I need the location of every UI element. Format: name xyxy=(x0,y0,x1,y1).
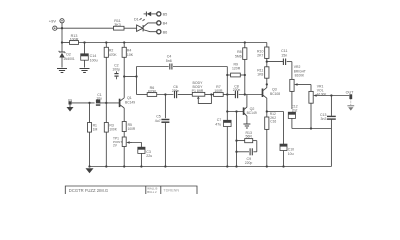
svg-text:100R: 100R xyxy=(128,127,136,131)
svg-text:BULL 2: BULL 2 xyxy=(147,190,157,194)
svg-text:B100K: B100K xyxy=(295,74,305,78)
svg-text:BC108: BC108 xyxy=(270,92,280,96)
svg-text:10K: 10K xyxy=(127,53,134,57)
svg-text:47u: 47u xyxy=(215,123,221,127)
svg-text:10u: 10u xyxy=(96,97,102,101)
svg-text:4u7: 4u7 xyxy=(155,119,161,123)
svg-text:1N4001: 1N4001 xyxy=(63,57,75,61)
svg-text:TDRENN: TDRENN xyxy=(163,188,179,192)
svg-text:BC149: BC149 xyxy=(247,111,257,115)
svg-text:A100K: A100K xyxy=(317,93,327,97)
svg-text:470K: 470K xyxy=(109,53,118,57)
svg-text:C13: C13 xyxy=(320,113,326,117)
svg-text:C3: C3 xyxy=(146,150,151,154)
svg-text:3n3: 3n3 xyxy=(321,117,327,121)
svg-text:D1: D1 xyxy=(134,18,139,22)
svg-text:DCGTR FUZZ 2IM.G: DCGTR FUZZ 2IM.G xyxy=(69,188,108,193)
svg-text:220n: 220n xyxy=(233,88,241,92)
svg-text:C14: C14 xyxy=(90,54,97,58)
svg-text:220n: 220n xyxy=(172,89,180,93)
svg-text:56R: 56R xyxy=(245,135,252,139)
svg-text:22u: 22u xyxy=(146,154,152,158)
svg-text:C7: C7 xyxy=(217,118,222,122)
svg-text:100p: 100p xyxy=(112,67,120,71)
svg-text:1K8: 1K8 xyxy=(257,73,263,77)
svg-text:120R: 120R xyxy=(232,66,241,70)
svg-text:B5: B5 xyxy=(163,13,168,17)
svg-text:220p: 220p xyxy=(245,161,253,165)
svg-text:C5: C5 xyxy=(156,114,161,118)
svg-text:100u: 100u xyxy=(90,59,98,63)
svg-text:BC149: BC149 xyxy=(125,100,135,104)
svg-text:2K7: 2K7 xyxy=(257,54,263,58)
svg-text:D2: D2 xyxy=(66,52,71,56)
svg-text:B4: B4 xyxy=(163,22,168,26)
svg-text:100K: 100K xyxy=(109,128,117,132)
svg-text:1M: 1M xyxy=(93,128,98,132)
svg-text:B6: B6 xyxy=(163,30,168,34)
svg-text:OUT: OUT xyxy=(346,91,355,95)
svg-text:5n6: 5n6 xyxy=(166,59,172,63)
svg-text:+9V: +9V xyxy=(49,18,57,23)
svg-text:10u: 10u xyxy=(288,152,294,156)
svg-text:15n: 15n xyxy=(281,53,287,57)
svg-text:5M6: 5M6 xyxy=(235,55,242,59)
svg-text:2n2: 2n2 xyxy=(292,108,298,112)
svg-text:C16: C16 xyxy=(270,120,276,124)
